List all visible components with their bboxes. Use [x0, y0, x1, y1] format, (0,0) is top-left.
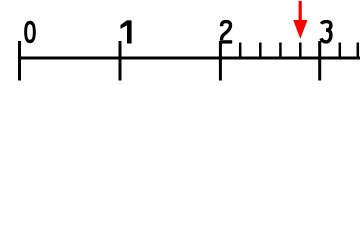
- major tick 0: [18, 41, 21, 81]
- minor tick 2.8: [299, 43, 302, 59]
- minor tick 2.4: [259, 43, 262, 59]
- major tick 3: [318, 41, 321, 81]
- number line axis: [18, 57, 360, 60]
- label 1: [121, 20, 132, 43]
- label 2: [220, 22, 232, 44]
- major tick 1: [119, 41, 122, 81]
- major tick 2: [219, 41, 222, 81]
- label 0: [24, 21, 36, 43]
- red arrow shaft at 2.8: [299, 1, 302, 24]
- red arrow head at 2.8: [293, 20, 307, 39]
- minor tick 3.4 (clipped at edge): [357, 43, 360, 59]
- label 3: [321, 22, 331, 42]
- minor tick 3.2: [339, 43, 342, 59]
- minor tick 2.2: [239, 43, 242, 59]
- minor tick 2.6: [279, 43, 282, 59]
